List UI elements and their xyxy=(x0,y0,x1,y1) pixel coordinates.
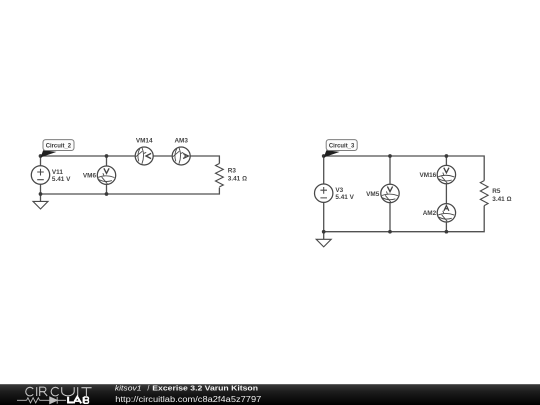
wire top rail left circuit xyxy=(41,156,220,164)
node dot V11 top xyxy=(39,154,43,158)
net flag Circuit_3 xyxy=(324,140,358,158)
CircuitLab logo CIRCUIT text xyxy=(26,387,92,396)
voltmeter VM5 xyxy=(366,184,399,202)
svg-text:kitsov1: kitsov1 xyxy=(115,384,142,393)
node dot VM6 top xyxy=(105,154,109,158)
svg-text:Excerise 3.2 Varun Kitson: Excerise 3.2 Varun Kitson xyxy=(152,384,258,393)
svg-text:VM16: VM16 xyxy=(419,172,436,179)
resistor R5 xyxy=(480,181,511,206)
CircuitLab logo LAB text xyxy=(68,397,88,404)
svg-text:VM14: VM14 xyxy=(136,138,153,145)
voltmeter VM6 xyxy=(83,166,116,184)
svg-text:5.41 V: 5.41 V xyxy=(52,176,71,183)
node dot V11 bottom xyxy=(39,192,43,196)
ammeter AM3 (horizontal) xyxy=(172,138,190,165)
net flag Circuit_2 xyxy=(41,140,75,158)
ammeter AM2 xyxy=(423,204,456,222)
svg-text:R3: R3 xyxy=(228,168,237,175)
svg-text:VM5: VM5 xyxy=(366,191,380,198)
voltmeter VM16 xyxy=(419,165,455,183)
wire V3 branch xyxy=(323,156,325,232)
svg-text:5.41 V: 5.41 V xyxy=(335,194,354,201)
svg-text:3.41 Ω: 3.41 Ω xyxy=(228,176,247,183)
svg-text:VM6: VM6 xyxy=(83,173,97,180)
wire VM6 branch xyxy=(106,156,108,194)
svg-text:AM2: AM2 xyxy=(423,210,437,217)
svg-text:Circuit_2: Circuit_2 xyxy=(46,143,72,150)
resistor R3 xyxy=(216,164,248,187)
svg-text:V11: V11 xyxy=(52,169,63,176)
footer bar background xyxy=(0,384,540,405)
ground left xyxy=(33,194,48,209)
wire bottom rail right circuit xyxy=(324,206,485,232)
CircuitLab logo mini circuit xyxy=(17,397,66,404)
svg-text:R5: R5 xyxy=(492,188,501,195)
node dot V3 bottom xyxy=(322,230,326,234)
node dot VM5 top xyxy=(388,154,392,158)
voltmeter VM14 (horizontal) xyxy=(135,138,153,165)
svg-text:http://circuitlab.com/c8a2f4a5: http://circuitlab.com/c8a2f4a5z7797 xyxy=(115,395,261,404)
node dot VM5 bottom xyxy=(388,230,392,234)
wire V11 branch xyxy=(40,156,42,194)
wire VM5 branch xyxy=(389,156,391,232)
voltage source V3 xyxy=(315,184,355,202)
wire VM16/AM2 branch xyxy=(445,156,447,232)
node dot AM2 bottom xyxy=(445,230,449,234)
svg-text:V3: V3 xyxy=(335,187,343,194)
wire top rail right circuit xyxy=(324,156,485,181)
node dot V3 top xyxy=(322,154,326,158)
svg-text:/: / xyxy=(147,384,149,393)
svg-text:AM3: AM3 xyxy=(174,138,188,145)
svg-text:3.41 Ω: 3.41 Ω xyxy=(492,196,511,203)
wire bottom rail left circuit xyxy=(41,188,220,195)
voltage source V11 xyxy=(31,166,71,184)
node dot VM6 bottom xyxy=(105,192,109,196)
svg-text:Circuit_3: Circuit_3 xyxy=(329,143,355,150)
ground right xyxy=(316,232,331,247)
node dot VM16 top xyxy=(445,154,449,158)
